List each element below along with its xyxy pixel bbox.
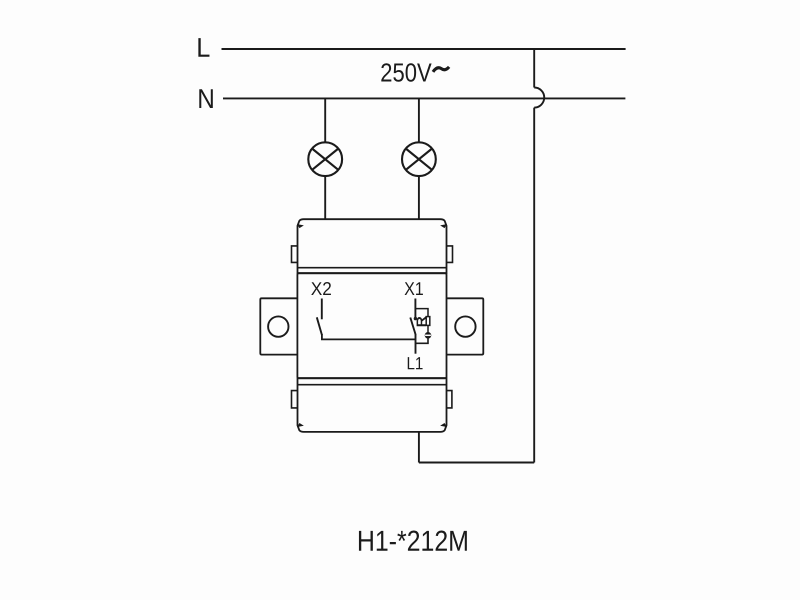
wire neon lamp to pole — [416, 338, 429, 343]
terminal label X2 — [311, 282, 331, 295]
value label 250V~ — [381, 63, 431, 82]
right ear hole — [455, 316, 475, 336]
device bottom cover — [298, 378, 447, 432]
device top terminal cover — [298, 219, 447, 273]
net label L — [198, 38, 209, 57]
crossover hop over N wire — [534, 88, 544, 108]
left mounting ear — [260, 298, 297, 354]
top cover corner dog-ear right — [441, 225, 446, 228]
wire resistor to neon lamp — [427, 325, 429, 332]
wire from L line down right side — [533, 49, 535, 88]
wire N to lamp E2 — [418, 98, 420, 142]
neon lamp dot — [425, 332, 432, 339]
wire N (line) — [223, 97, 625, 99]
wire L (line) — [222, 48, 626, 50]
switch blade at X1 — [410, 318, 415, 335]
resistor value label R (rotated) — [417, 317, 426, 326]
top cover corner dog-ear left — [298, 225, 303, 228]
model label H1-*212M — [359, 531, 467, 551]
device top cover seam — [298, 267, 447, 269]
bottom cover corner dog-ear right — [441, 424, 446, 427]
wire lamp E1 to device — [324, 176, 326, 220]
resistor R (body) — [426, 317, 430, 326]
wire X2 pole to X1 pole — [322, 334, 416, 339]
top cover left clip — [292, 246, 298, 263]
wire X1 pole down to L1 — [415, 334, 417, 354]
device bottom cover seam — [298, 384, 447, 386]
neon branch top bracket — [415, 309, 428, 317]
terminal X2 stub — [321, 299, 323, 320]
lamp E2 — [402, 142, 436, 176]
wire right vertical below hop — [533, 108, 535, 463]
wire N to lamp E1 — [324, 98, 326, 142]
X1 fixed contact dot — [414, 317, 417, 320]
right mounting ear — [447, 298, 484, 354]
net label N — [199, 89, 213, 108]
neon lamp slit — [425, 334, 431, 336]
terminal label X1 — [405, 282, 423, 295]
device main body — [297, 273, 446, 378]
bottom cover corner dog-ear left — [298, 424, 303, 427]
bottom cover right clip — [447, 391, 452, 408]
wire bottom horizontal — [419, 462, 534, 464]
lamp E1 — [308, 142, 342, 176]
switch blade at X2 — [317, 317, 322, 335]
wire from device bottom to bottom horizontal — [418, 432, 420, 463]
left ear hole — [268, 316, 288, 336]
wire lamp E2 to device — [418, 176, 420, 220]
top cover right clip — [447, 246, 453, 263]
tilde of 250V~ — [433, 67, 449, 72]
terminal label L1 — [408, 357, 423, 369]
terminal X1 stub — [414, 299, 416, 319]
bottom cover left clip — [292, 391, 298, 408]
